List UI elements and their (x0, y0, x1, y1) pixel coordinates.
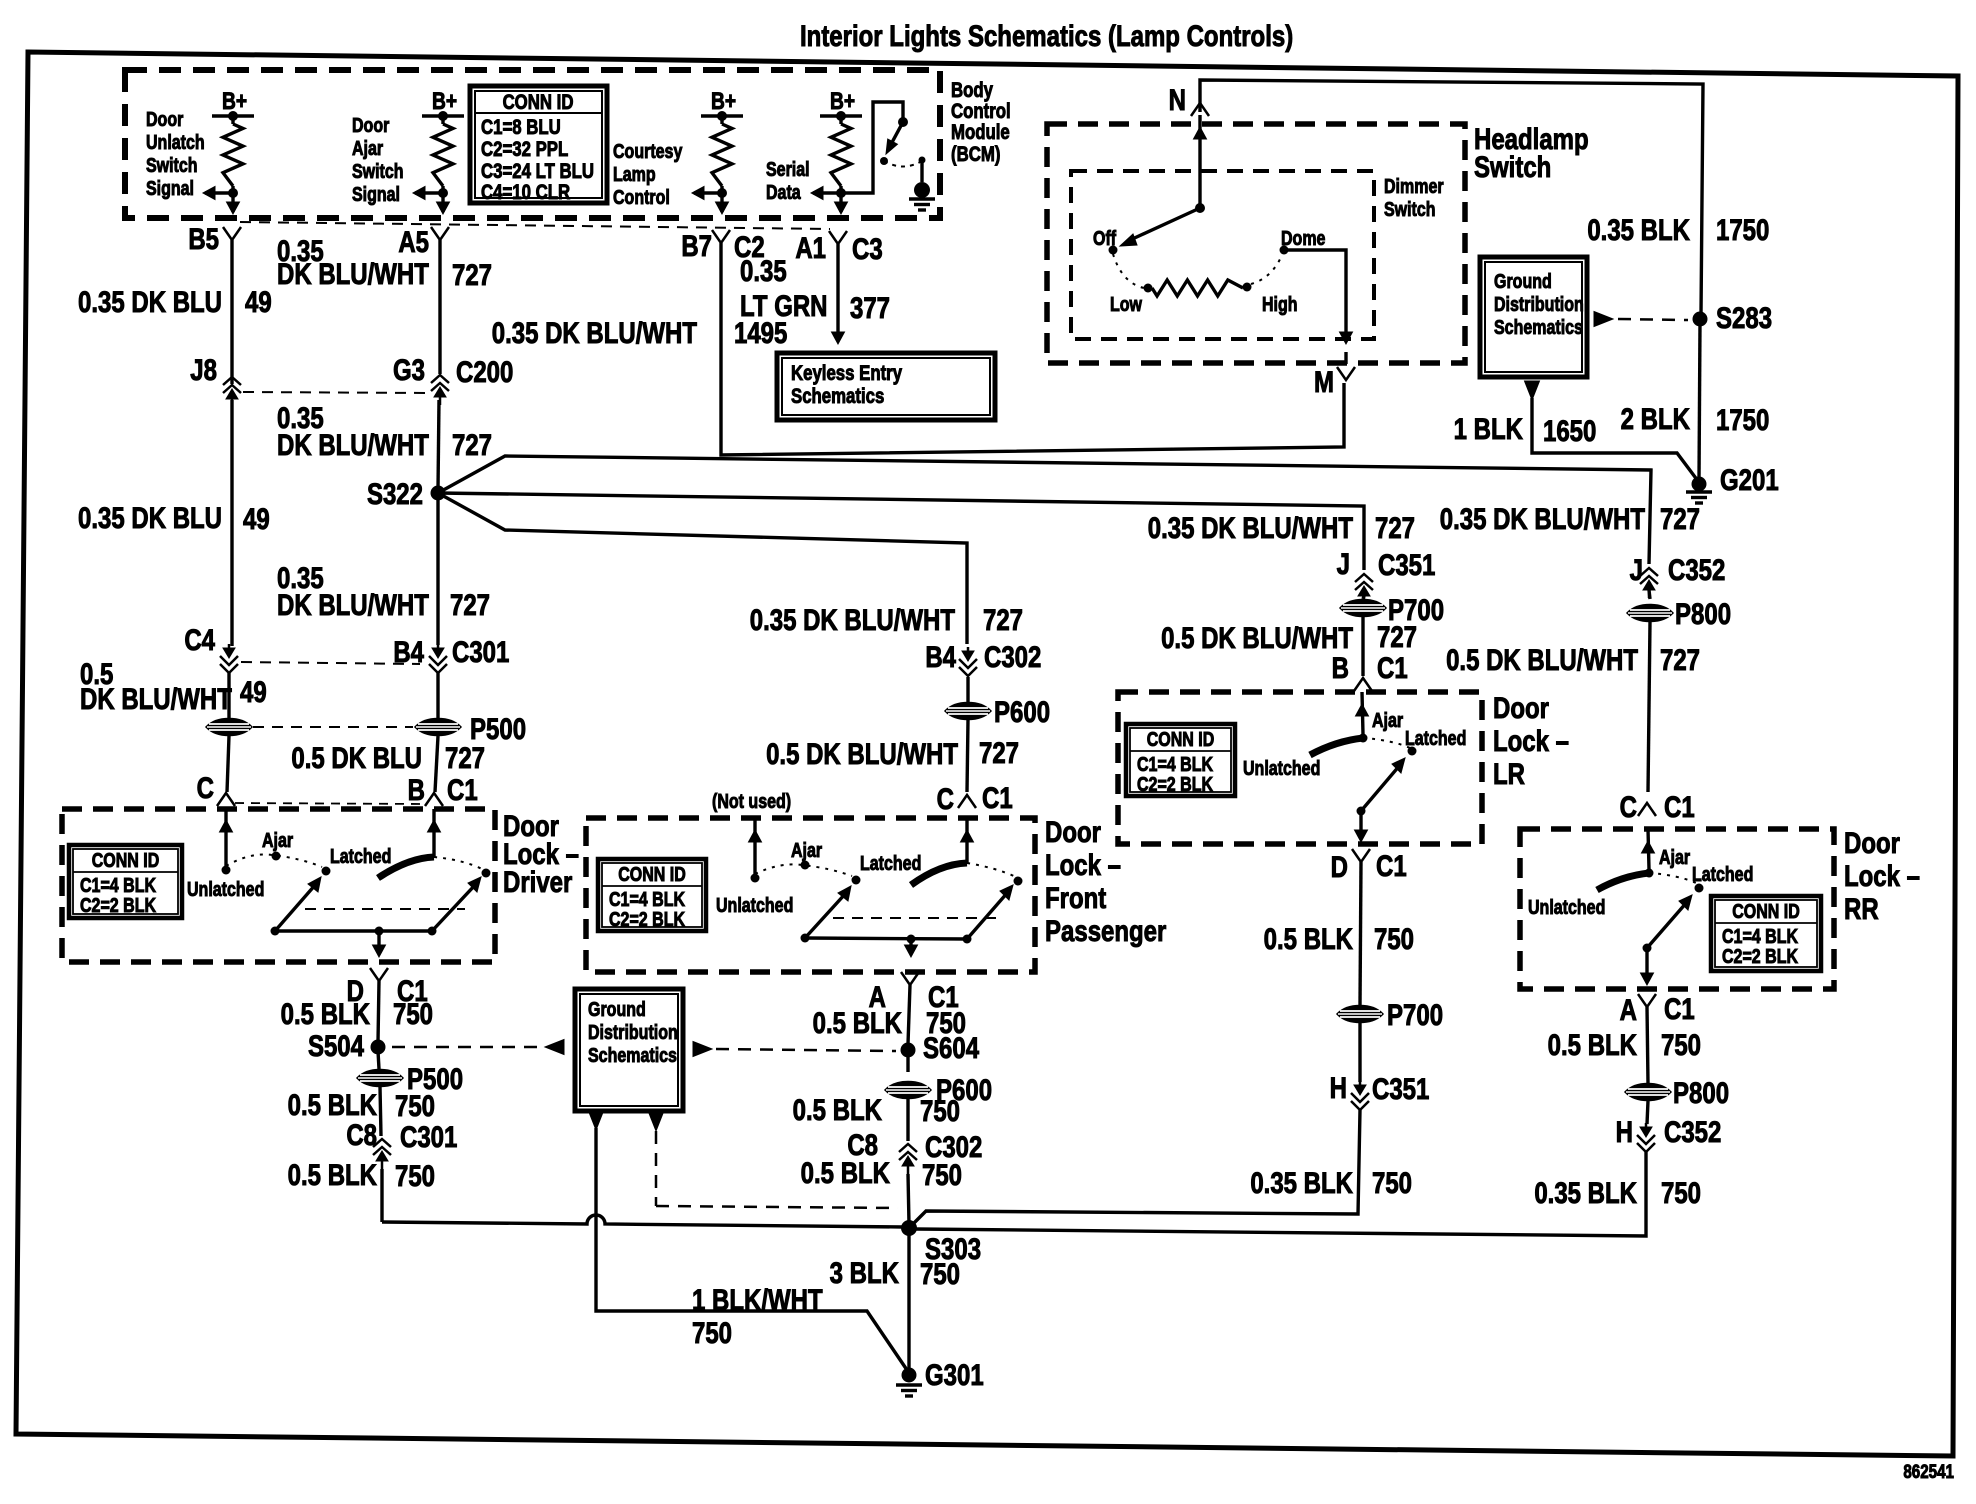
wire A to S604 (908, 985, 910, 1044)
label Headlamp Switch (1474, 121, 1589, 183)
label 0.5 DK BLU/WHT 727 (P800) (1446, 642, 1700, 676)
svg-text:Dome: Dome (1281, 227, 1325, 249)
label 0.5 BLK 750 (P600 lower) (793, 1092, 960, 1127)
svg-text:Lock –: Lock – (1844, 858, 1920, 892)
label 0.35 DK BLU/WHT 1495 (492, 315, 788, 349)
svg-text:Door: Door (352, 114, 389, 136)
connector pin M (1314, 364, 1355, 398)
svg-text:0.35 DK BLU/WHT: 0.35 DK BLU/WHT (492, 315, 698, 349)
RR wiper bold arc (1597, 873, 1649, 890)
svg-text:C1: C1 (1664, 789, 1695, 823)
svg-text:B: B (1332, 650, 1349, 684)
svg-text:0.5 DK BLU/WHT: 0.5 DK BLU/WHT (766, 736, 958, 770)
driver lock switch arm 1 (271, 877, 322, 936)
svg-text:0.5 BLK: 0.5 BLK (1264, 921, 1354, 955)
svg-text:Ajar: Ajar (1372, 709, 1403, 731)
wire P800 to C352 H (1647, 1101, 1648, 1124)
svg-text:C2=2 BLK: C2=2 BLK (1137, 773, 1213, 795)
svg-text:750: 750 (393, 996, 433, 1030)
driver lock dashed mid line (305, 908, 465, 910)
label 0.5 DK BLU/WHT 727 (P700) (1161, 619, 1417, 654)
svg-text:750: 750 (395, 1088, 435, 1122)
svg-text:0.35 DK BLU/WHT: 0.35 DK BLU/WHT (750, 602, 956, 636)
svg-text:727: 727 (452, 257, 492, 291)
svg-text:J8: J8 (190, 352, 217, 386)
svg-text:1650: 1650 (1543, 413, 1596, 447)
svg-text:B+: B+ (432, 87, 457, 115)
connector pin A1 C3 (795, 230, 882, 265)
label 0.35 DK BLU/WHT 727 (A5) (277, 233, 492, 291)
svg-text:C2=2 BLK: C2=2 BLK (1722, 945, 1798, 967)
wire C8 to S303 (908, 1174, 909, 1224)
BCM dashed enclosure box (125, 70, 940, 218)
label 0.5 DK BLU/WHT 727 (P600) (766, 735, 1019, 770)
svg-text:1 BLK/WHT: 1 BLK/WHT (692, 1282, 823, 1316)
dashed wire from box to S303 (656, 1131, 898, 1208)
svg-text:S283: S283 (1716, 300, 1772, 334)
contact High (1243, 283, 1298, 316)
svg-text:0.5 BLK: 0.5 BLK (281, 996, 371, 1030)
svg-text:0.5 DK BLU: 0.5 DK BLU (291, 740, 422, 774)
connector C301 pin B4 (393, 634, 509, 673)
label 0.35 LT GRN 377 (740, 253, 890, 324)
front passenger switch arm 2 (963, 885, 1014, 944)
label Door Lock Front Passenger (1045, 814, 1167, 947)
dotted arc High to Dome (1251, 255, 1282, 284)
svg-text:0.35 BLK: 0.35 BLK (1587, 212, 1690, 246)
svg-text:C352: C352 (1664, 1114, 1721, 1148)
dashed wire to S283 (1618, 319, 1688, 320)
connector C200 pin G3 (393, 352, 513, 405)
svg-text:B4: B4 (925, 639, 956, 673)
connector P500 (left twin) (206, 719, 252, 736)
svg-text:C351: C351 (1372, 1071, 1429, 1105)
svg-text:DK BLU/WHT: DK BLU/WHT (277, 256, 429, 290)
label 0.5 DK BLU 727 (291, 740, 485, 774)
svg-text:1750: 1750 (1716, 212, 1769, 246)
svg-text:C1=4 BLK: C1=4 BLK (1137, 753, 1213, 775)
svg-text:D: D (1331, 849, 1348, 883)
label 0.5 BLK 750 (P500 lower) (288, 1087, 435, 1122)
wire B5 to J8 (230, 240, 233, 384)
svg-text:A1: A1 (795, 230, 826, 264)
svg-text:S322: S322 (367, 476, 423, 510)
wire S504 to P500 lower (378, 1051, 379, 1069)
svg-text:750: 750 (922, 1157, 962, 1191)
svg-text:DK BLU/WHT: DK BLU/WHT (80, 681, 232, 715)
connector pin D C1 (driver lock bottom) (347, 968, 428, 1008)
svg-text:B: B (408, 772, 425, 806)
svg-text:C8: C8 (346, 1117, 377, 1151)
front passenger right contact (1014, 877, 1023, 886)
svg-text:Distribution: Distribution (588, 1021, 678, 1043)
wire B4 to P500 (436, 672, 439, 718)
svg-text:G3: G3 (393, 352, 425, 386)
front passenger base line (805, 935, 967, 944)
svg-text:A: A (1620, 992, 1637, 1026)
svg-text:Latched: Latched (1692, 863, 1753, 885)
svg-text:Lock –: Lock – (1493, 723, 1569, 757)
contact Off (1093, 227, 1118, 254)
svg-text:Driver: Driver (503, 864, 573, 898)
connector pin C (driver lock C1) (197, 770, 235, 806)
LR wiper bold arc (1310, 738, 1363, 755)
arrow at ground distribution (right) (693, 1042, 712, 1057)
label 0.35 DK BLU/WHT 727 (C351) (1148, 510, 1415, 544)
wire B7 to headlamp switch M (721, 243, 1344, 455)
svg-text:C: C (1620, 789, 1637, 823)
front passenger dotted arc to right contact (967, 863, 1016, 877)
svg-text:B4: B4 (393, 634, 424, 668)
svg-text:Interior Lights Schematics (La: Interior Lights Schematics (Lamp Control… (800, 18, 1293, 52)
contact Latched (driver) (322, 845, 392, 875)
wire J to P800 (1649, 590, 1650, 599)
svg-text:P800: P800 (1675, 596, 1731, 630)
driver lock dotted arc to right contact (434, 857, 484, 870)
svg-text:Switch: Switch (1384, 198, 1436, 220)
svg-text:Unlatched: Unlatched (1528, 896, 1605, 918)
arrow at ground distribution (left) (545, 1040, 564, 1055)
label 0.5 BLK 750 (C302 lower) (801, 1155, 962, 1191)
label 0.5 BLK 750 (C8 lower) (288, 1157, 435, 1192)
connector P500 (415, 711, 526, 745)
svg-text:Door: Door (1844, 825, 1900, 859)
svg-text:C351: C351 (1378, 547, 1435, 581)
dimmer switch arm (pivot to Off) (1120, 203, 1205, 246)
LR output wire (1355, 811, 1368, 842)
svg-text:0.5 BLK: 0.5 BLK (1548, 1027, 1638, 1061)
svg-text:C2=2 BLK: C2=2 BLK (80, 894, 156, 916)
svg-text:H: H (1616, 1114, 1633, 1148)
wire S604 to P600 lower (906, 1054, 909, 1072)
svg-text:3 BLK: 3 BLK (830, 1255, 900, 1289)
wire 1 BLK 1650 to G201 (1532, 398, 1698, 481)
contact Ajar (driver) (262, 829, 293, 860)
LR switch arm (1357, 758, 1406, 816)
connector C302 pin B4 (925, 639, 1041, 676)
svg-text:2 BLK: 2 BLK (1621, 401, 1691, 435)
wire N to top line and right down to S283/G201 (1200, 80, 1703, 314)
svg-text:P600: P600 (994, 694, 1050, 728)
RR wire into ajar contact (1642, 829, 1655, 878)
driver lock wire C to unlatched contact (220, 809, 233, 875)
connector C351 pin H (1330, 1070, 1430, 1110)
svg-text:Control: Control (951, 100, 1011, 123)
svg-text:49: 49 (245, 284, 272, 318)
svg-text:B+: B+ (222, 87, 247, 115)
wire A1 C3 to keyless entry (836, 244, 839, 332)
label 0.35 DK BLU/WHT 727 (C302) (750, 602, 1023, 636)
label 0.35 DK BLU/WHT 727 (S322-C301) (277, 560, 490, 621)
label 0.35 BLK 750 (LR lower) (1250, 1165, 1412, 1199)
svg-text:0.5 DK BLU/WHT: 0.5 DK BLU/WHT (1446, 642, 1638, 676)
svg-text:Schematics: Schematics (588, 1044, 677, 1066)
connector C352 pin H (1616, 1114, 1722, 1152)
svg-text:Lamp: Lamp (613, 163, 656, 185)
svg-text:Serial: Serial (766, 158, 810, 180)
svg-text:C1: C1 (982, 780, 1013, 814)
svg-text:P700: P700 (1387, 997, 1443, 1031)
svg-text:Unlatch: Unlatch (146, 131, 205, 153)
wire D to P700 lower (1360, 862, 1361, 1005)
wire B4 to P600 (966, 677, 969, 702)
contact Dome (1280, 227, 1326, 254)
svg-text:727: 727 (1660, 501, 1700, 535)
front passenger output wire (905, 939, 918, 957)
svg-text:G201: G201 (1720, 462, 1779, 496)
svg-text:C200: C200 (456, 354, 513, 388)
svg-text:C302: C302 (984, 639, 1041, 673)
svg-text:C1=4 BLK: C1=4 BLK (80, 874, 156, 896)
connector pin B C1 (door lock LR) (1332, 650, 1408, 691)
wire S303 to G301 (907, 1232, 910, 1368)
svg-text:High: High (1262, 293, 1298, 315)
wire 1 BLK/WHT 750 to G301 (596, 1128, 907, 1370)
svg-text:Latched: Latched (1405, 727, 1466, 749)
label 2 BLK 1750 (1621, 401, 1770, 436)
svg-text:N: N (1169, 82, 1186, 116)
svg-text:Keyless Entry: Keyless Entry (791, 362, 902, 385)
svg-text:B+: B+ (711, 87, 736, 115)
wire P500 to driver lock pin B (435, 736, 438, 792)
svg-text:Front: Front (1045, 880, 1106, 914)
connector pin D C1 (LR bottom) (1331, 848, 1407, 883)
svg-text:G301: G301 (925, 1357, 984, 1391)
svg-text:J: J (1337, 546, 1350, 580)
svg-text:C3=24 LT BLU: C3=24 LT BLU (481, 160, 594, 183)
driver lock dotted arc unlatched-ajar-latched (226, 854, 322, 867)
Keyless Entry Schematics box (777, 353, 995, 420)
label 1 BLK 1650 (1454, 411, 1597, 447)
connector pin A C1 (front passenger bottom) (869, 972, 959, 1014)
svg-text:C1: C1 (1376, 848, 1407, 882)
svg-text:Unlatched: Unlatched (1243, 757, 1320, 779)
svg-text:C: C (197, 770, 214, 804)
svg-text:B+: B+ (830, 87, 855, 115)
svg-text:49: 49 (243, 501, 270, 535)
svg-text:1750: 1750 (1716, 402, 1769, 436)
dashed wire box to S604 (716, 1049, 896, 1051)
contact Ajar (front passenger) (791, 839, 822, 869)
connector pin N (1169, 82, 1209, 116)
wire P600 to C8 C302 (906, 1099, 909, 1141)
connector pin A C1 (RR bottom) (1620, 991, 1695, 1026)
wire D to S504 (378, 981, 379, 1042)
arrow down from box (dashed branch) (649, 1112, 664, 1131)
connector C301 pin C4 (184, 622, 238, 673)
svg-text:A5: A5 (398, 224, 429, 258)
driver lock connector interface dashed line (235, 803, 425, 804)
Door Lock Driver dashed box (62, 809, 495, 962)
splice S322 (367, 476, 446, 510)
label 0.5 DK BLU/WHT 49 (80, 656, 267, 715)
connector C301 pin C8 (346, 1117, 457, 1169)
RR dotted arc ajar to latched (1649, 873, 1696, 883)
svg-text:S604: S604 (923, 1030, 979, 1064)
driver lock wire B into box (428, 809, 441, 857)
contact Latched (front passenger) (852, 852, 922, 884)
svg-text:727: 727 (452, 427, 492, 461)
wire H to S303 (909, 1110, 1360, 1228)
svg-text:Module: Module (951, 121, 1010, 144)
wire C4 to P500 left half (227, 673, 230, 718)
front passenger switch arm 1 (801, 886, 852, 943)
LR dotted arc ajar to latched (1363, 738, 1410, 748)
label 0.35 DK BLU/WHT 727 (C352) (1440, 501, 1700, 535)
label Door Ajar Switch Signal (352, 114, 404, 205)
svg-text:C1: C1 (1664, 991, 1695, 1025)
wire N into dimmer switch pivot (1198, 115, 1201, 206)
BCM label Body Control Module (BCM) (951, 79, 1011, 166)
svg-text:Control: Control (613, 186, 670, 208)
svg-text:862541: 862541 (1903, 1460, 1954, 1482)
label 0.5 BLK 750 (LR) (1264, 921, 1414, 955)
wire J to P700 (1363, 596, 1364, 599)
connector C302 pin C8 (847, 1127, 982, 1174)
svg-text:Ground: Ground (1494, 270, 1552, 292)
svg-text:CONN ID: CONN ID (1147, 728, 1215, 750)
connector C351 pin J (1337, 546, 1436, 604)
connector P600 (lower) (885, 1072, 992, 1106)
wire S322 to C351 column (middle branch) (438, 493, 1364, 570)
svg-text:C1=4 BLK: C1=4 BLK (609, 888, 685, 910)
dimmer rheostat resistor (1152, 280, 1243, 296)
svg-text:Lock –: Lock – (1045, 847, 1121, 881)
wire P800 to pin C (1648, 622, 1650, 792)
svg-text:Latched: Latched (860, 852, 921, 874)
wire H to S303 (RR) (915, 1152, 1646, 1236)
dashed wire S504 to ground distribution box (392, 1046, 540, 1049)
front passenger dashed mid line (833, 917, 1000, 919)
wire P500 to C8 (380, 1087, 381, 1136)
wire to driver lock pin C (227, 736, 229, 792)
svg-text:Door: Door (146, 108, 183, 130)
svg-text:Latched: Latched (330, 845, 391, 867)
svg-text:H: H (1330, 1070, 1347, 1104)
svg-text:727: 727 (445, 740, 485, 774)
svg-text:RR: RR (1844, 891, 1879, 925)
dotted arc Off to Low (1113, 254, 1144, 288)
svg-text:Data: Data (766, 181, 801, 203)
BCM internal switch to ground (841, 102, 935, 210)
svg-text:0.35 DK BLU/WHT: 0.35 DK BLU/WHT (1440, 501, 1646, 535)
label 0.5 BLK 750 (S604 upper) (813, 1005, 966, 1039)
svg-text:C2=32 PPL: C2=32 PPL (481, 138, 569, 161)
resistor B+ pull-up, door unlatch switch signal (203, 87, 254, 214)
floor wire to S303 with hop (382, 1215, 903, 1227)
connector C200 pin J8 (190, 352, 241, 407)
svg-text:B5: B5 (188, 221, 219, 255)
wire S283 to G201 (1699, 323, 1700, 480)
svg-text:Schematics: Schematics (791, 385, 884, 408)
svg-text:DK BLU/WHT: DK BLU/WHT (277, 427, 429, 461)
svg-text:750: 750 (692, 1315, 732, 1349)
svg-text:C1=8 BLU: C1=8 BLU (481, 116, 561, 139)
contact Latched (RR) (1692, 863, 1753, 892)
label 0.35 DK BLU 49 (upper) (78, 284, 272, 318)
connector pin C C1 (front passenger) (937, 780, 1013, 815)
svg-text:(BCM): (BCM) (951, 143, 1000, 166)
splice S283 (1693, 300, 1773, 334)
resistor B+ pull-up, serial data (811, 87, 862, 214)
connector pin B C1 (driver lock) (408, 772, 478, 806)
wire S322 to B4 (436, 497, 439, 645)
LR lock CONN ID table (1126, 724, 1235, 796)
splice S303 (901, 1220, 981, 1266)
C301 interface dashed line (241, 662, 420, 664)
resistor B+ pull-up, courtesy lamp control (692, 87, 743, 214)
resistor B+ pull-up, door ajar switch signal (413, 87, 464, 214)
wire C8 down to floor run (380, 1169, 383, 1222)
arrow to ground distribution (S283) (1594, 312, 1613, 327)
svg-text:CONN ID: CONN ID (503, 91, 574, 114)
wire G3 to splice S322 (438, 400, 439, 489)
svg-text:Switch: Switch (1474, 149, 1551, 183)
svg-text:1 BLK: 1 BLK (1454, 411, 1524, 445)
svg-text:B7: B7 (681, 228, 712, 262)
svg-text:CONN ID: CONN ID (618, 863, 686, 885)
svg-text:Switch: Switch (352, 160, 404, 182)
front passenger wiper bold arc (911, 863, 967, 885)
front passenger CONN ID table (598, 859, 706, 931)
svg-text:Unlatched: Unlatched (187, 878, 264, 900)
svg-text:750: 750 (1661, 1175, 1701, 1209)
svg-text:49: 49 (240, 674, 267, 708)
svg-text:DK BLU/WHT: DK BLU/WHT (277, 587, 429, 621)
Door Lock LR dashed box (1118, 692, 1482, 844)
svg-text:C: C (937, 781, 954, 815)
svg-text:0.5 BLK: 0.5 BLK (793, 1092, 883, 1126)
ground G201 (1686, 462, 1779, 503)
RR switch arm (1643, 895, 1693, 953)
svg-text:S504: S504 (308, 1028, 364, 1062)
label Serial Data (766, 158, 810, 203)
RR output wire (1641, 948, 1654, 985)
driver lock wiper bold arc (378, 857, 434, 878)
svg-text:C1: C1 (1377, 650, 1408, 684)
svg-text:C2=2 BLK: C2=2 BLK (609, 908, 685, 930)
wire S322 to C302 column (lower branch) (438, 493, 967, 644)
connector pin B7 C2 (681, 228, 764, 263)
label 0.35 DK BLU/WHT 727 (G3-S322) (277, 400, 492, 461)
svg-text:727: 727 (1377, 619, 1417, 653)
svg-text:Ajar: Ajar (1659, 846, 1690, 868)
driver lock CONN ID table (69, 845, 182, 918)
svg-text:Door: Door (1045, 814, 1101, 848)
svg-text:C1=4 BLK: C1=4 BLK (1722, 925, 1798, 947)
driver lock output wire (373, 931, 386, 957)
svg-text:LT GRN: LT GRN (740, 288, 828, 322)
svg-text:750: 750 (1661, 1027, 1701, 1061)
driver lock switch arm 2 (428, 877, 482, 936)
svg-text:750: 750 (1372, 1165, 1412, 1199)
connector C352 pin J (1630, 552, 1726, 598)
svg-text:Schematics: Schematics (1494, 316, 1583, 338)
svg-text:0.35: 0.35 (740, 253, 787, 287)
svg-text:727: 727 (1375, 510, 1415, 544)
svg-text:Courtesy: Courtesy (613, 140, 682, 162)
driver lock base line (275, 927, 432, 936)
arrow from ground distribution box down (1525, 381, 1540, 400)
svg-text:0.35 DK BLU: 0.35 DK BLU (78, 284, 222, 318)
connector P800 (lower) (1625, 1075, 1729, 1109)
svg-text:C4: C4 (184, 622, 215, 656)
label Dimmer Switch (1384, 175, 1444, 220)
svg-text:727: 727 (1660, 642, 1700, 676)
svg-text:(Not used): (Not used) (712, 790, 791, 812)
label Door Lock LR (1493, 690, 1569, 790)
wire Dome to M (1284, 250, 1346, 338)
